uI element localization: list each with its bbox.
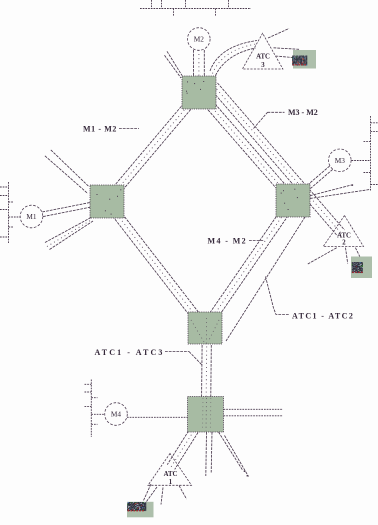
hub node middle-bottom <box>188 312 222 344</box>
artifacts inside middle-bottom hub <box>191 318 219 344</box>
wire M4 to M4 hub <box>127 416 188 418</box>
svg-text:ATC1 - ATC2: ATC1 - ATC2 <box>292 312 354 321</box>
wire bus-bottom-left to M4 <box>91 413 105 415</box>
wire bus-left to M1 <box>9 216 21 218</box>
curved link M2-hub to ATC3 <box>210 41 257 76</box>
wires right of M4 hub <box>224 409 284 416</box>
svg-text:M4 - M2: M4 - M2 <box>208 237 248 246</box>
utility node M1 <box>20 205 43 228</box>
link M1-hub to mid-hub <box>103 199 208 331</box>
wire M3 to bus-right <box>352 160 371 162</box>
link M1 to M1-hub <box>31 199 107 219</box>
svg-text:ATC: ATC <box>337 233 351 240</box>
svg-text:3: 3 <box>261 62 265 69</box>
rays right of M3 hub <box>310 184 371 198</box>
speckles inside top hub <box>186 81 204 94</box>
label M1 - M2 <box>83 125 139 134</box>
hub node left (M1 hub) <box>90 185 124 218</box>
link M1-hub to M2-hub <box>104 90 203 205</box>
label ATC1 - ATC2 <box>266 277 355 321</box>
svg-text:ATC1 - ATC3: ATC1 - ATC3 <box>95 348 165 357</box>
link M2 to M2-hub <box>194 50 205 80</box>
ATC 3 triangle <box>242 33 283 69</box>
svg-text:M1 - M2: M1 - M2 <box>83 125 117 134</box>
link mid-hub to M4-hub <box>201 326 211 414</box>
utility node M2 <box>188 28 211 51</box>
rays from ATC3 <box>268 29 300 58</box>
rays below M4 hub <box>206 432 249 477</box>
utility node M3 <box>329 149 352 172</box>
svg-text:M4: M4 <box>111 410 121 419</box>
bus right <box>364 116 378 191</box>
hub node right (M3 hub) <box>276 184 310 217</box>
bus bottom-left <box>85 380 98 438</box>
icon node near ATC3 <box>292 50 316 69</box>
icon node near ATC2 <box>351 257 372 279</box>
svg-text:M1: M1 <box>26 212 36 221</box>
utility node M4 <box>105 403 128 426</box>
rays up-left of M1 hub <box>45 150 89 194</box>
hub node top (M2 hub) <box>182 76 216 109</box>
link M2-hub to ATC2 <box>211 83 345 236</box>
wire extra strand M3-hub to mid-hub <box>226 217 305 341</box>
svg-text:2: 2 <box>342 240 346 247</box>
svg-text:M3: M3 <box>335 156 345 165</box>
link M3-hub to mid-hub <box>201 198 297 331</box>
ATC 2 triangle <box>323 216 363 247</box>
rays down-left of M1 hub <box>45 218 93 250</box>
link M3 to M3-hub <box>292 159 342 203</box>
rays up-left of M2 hub <box>165 51 183 78</box>
link M2-hub to M3-hub <box>196 90 297 204</box>
hub node bottom (M4 hub) <box>188 397 224 433</box>
artifacts inside bottom hub <box>203 398 211 431</box>
label M3 - M2 <box>254 108 318 129</box>
svg-text:ATC: ATC <box>256 54 270 61</box>
svg-text:M3 - M2: M3 - M2 <box>288 108 318 117</box>
bus top <box>140 0 251 17</box>
ATC 1 triangle <box>148 454 192 487</box>
rays below ATC2 <box>307 248 362 265</box>
svg-text:ATC: ATC <box>164 471 178 478</box>
label ATC1 - ATC3 <box>95 348 202 365</box>
link M4-hub to ATC1 <box>167 412 208 470</box>
icon node near ATC1 <box>127 502 154 518</box>
speckles inside right hub <box>281 189 298 210</box>
rays below ATC1 <box>144 484 187 505</box>
svg-text:M2: M2 <box>194 35 204 44</box>
svg-text:1: 1 <box>169 479 173 486</box>
speckles inside left hub <box>97 189 122 214</box>
label M4 - M2 <box>208 237 265 246</box>
bus left <box>0 182 14 243</box>
